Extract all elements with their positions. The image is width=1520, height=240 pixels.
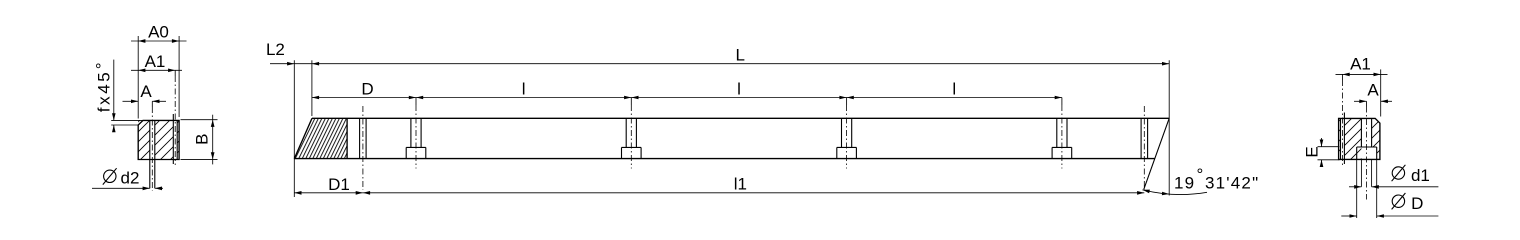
dimension phi-D line bbox=[1341, 215, 1356, 217]
main view: screw hole 4 slot bbox=[1056, 118, 1058, 147]
left end view: hatching bbox=[138, 120, 150, 159]
right end view: cross-hole centerline bbox=[1342, 74, 1344, 80]
dimension phi-d2 line bbox=[92, 187, 150, 189]
dimension phi-D symbol bbox=[1392, 195, 1404, 207]
dimension phi-d2 symbol bbox=[104, 170, 116, 182]
right end view: screw hole centerline bbox=[1366, 101, 1368, 106]
dimension phi-d1 symbol bbox=[1392, 167, 1404, 179]
dimension L2 line bbox=[270, 63, 312, 65]
dimension A1 line (right view) bbox=[1336, 73, 1388, 75]
right end view: screw slot lines bbox=[1360, 118, 1362, 147]
left end view: hole d2 centerline bbox=[151, 101, 153, 107]
right end view: counterbore bbox=[1357, 146, 1377, 148]
svg-text:D: D bbox=[1411, 194, 1423, 213]
dimension phi-D extension lines bbox=[1356, 159, 1358, 218]
svg-text:d2: d2 bbox=[121, 169, 140, 188]
svg-text:A1: A1 bbox=[1350, 55, 1371, 74]
dimension L2/D1 extension line (bottom-left corner) bbox=[293, 60, 295, 197]
main view: left adjusting cross-hole centerline bbox=[362, 106, 364, 190]
main view: screw hole 3 slot bbox=[841, 118, 843, 147]
svg-text:L2: L2 bbox=[266, 40, 285, 59]
dimension chain node arrows at x=847 bbox=[839, 96, 846, 100]
svg-text:°: ° bbox=[1197, 165, 1204, 184]
dimension phi-d1 line bbox=[1349, 186, 1361, 188]
svg-text:l: l bbox=[952, 80, 956, 99]
main view: left taper slant edge bbox=[294, 118, 312, 158]
dimension A0 line bbox=[131, 40, 187, 42]
dimension chain node arrows at x=631 bbox=[624, 96, 631, 100]
main view: screw hole 4 centerline bbox=[1061, 98, 1063, 106]
dimension A line (left view) bbox=[123, 100, 139, 102]
main view: screw hole 1 centerline bbox=[415, 98, 417, 106]
main view: bar bottom edge bbox=[294, 158, 1154, 160]
dimension E line bbox=[1321, 138, 1323, 147]
dimension E extension lines bbox=[1318, 146, 1340, 148]
main view: right adjusting cross-hole centerline bbox=[1143, 106, 1145, 190]
dimension phi-d1 extension lines bbox=[1360, 159, 1362, 186]
main view: taper hatch block bbox=[294, 118, 347, 158]
dimension angle 19 deg 31' 42" arc bbox=[1143, 190, 1208, 195]
main view: screw hole 4 counterbore bbox=[1052, 146, 1072, 148]
dimension B line bbox=[212, 115, 214, 165]
svg-text:l1: l1 bbox=[734, 175, 747, 194]
main view: bar top edge bbox=[312, 117, 1169, 119]
right end view: section outline with chamfer bbox=[1339, 118, 1380, 159]
svg-text:31'42": 31'42" bbox=[1205, 174, 1259, 193]
dimension chain node arrows at x=416 bbox=[409, 96, 416, 100]
dimension A0 right extension line bbox=[178, 36, 180, 117]
main view: screw hole 2 counterbore bbox=[622, 146, 642, 148]
dimension A1 line (left view) bbox=[131, 69, 182, 71]
right end view: hatching bbox=[1339, 118, 1341, 159]
main view: left adjusting cross-hole lines bbox=[359, 118, 361, 158]
left end view: cross-hole centerline bbox=[174, 70, 176, 76]
svg-text:A1: A1 bbox=[145, 52, 166, 71]
svg-text:E: E bbox=[1303, 146, 1322, 157]
svg-text:A0: A0 bbox=[148, 23, 169, 42]
main view: screw hole 1 counterbore bbox=[406, 146, 426, 148]
main view: screw hole 1 slot bbox=[410, 118, 412, 147]
svg-text:D: D bbox=[361, 80, 373, 99]
right end view: cross-hole lines bbox=[1340, 118, 1342, 159]
dimension L left extension line bbox=[311, 60, 313, 116]
left end view: cross-hole lines bbox=[172, 114, 174, 164]
svg-text:d1: d1 bbox=[1411, 166, 1430, 185]
dimension A line (right view) bbox=[1354, 100, 1367, 102]
dimension l1 line bbox=[363, 192, 1144, 194]
left end view: hole d2 lines bbox=[149, 120, 151, 188]
svg-text:l: l bbox=[522, 80, 526, 99]
svg-text:A: A bbox=[1367, 81, 1379, 100]
main view: right end slant edge (taper angle) bbox=[1144, 118, 1169, 189]
dimension B extension lines bbox=[181, 119, 218, 121]
svg-text:L: L bbox=[735, 46, 744, 65]
dimension L line bbox=[312, 63, 1169, 65]
main view: screw hole 2 centerline bbox=[630, 98, 632, 106]
svg-text:19: 19 bbox=[1174, 174, 1195, 193]
dimension D1 line bbox=[294, 192, 363, 194]
dimension A0/A1/A left extension line bbox=[137, 36, 139, 119]
main view: screw hole 3 counterbore bbox=[837, 146, 857, 148]
svg-text:D1: D1 bbox=[328, 175, 350, 194]
main view: screw hole 3 centerline bbox=[846, 98, 848, 106]
dimension chain D-l-l-l line bbox=[312, 97, 1062, 99]
main view: right adjusting cross-hole lines bbox=[1140, 118, 1142, 158]
svg-text:B: B bbox=[193, 134, 212, 145]
dimension A1/A right extension line bbox=[1380, 69, 1382, 116]
left end view: section outline with chamfer bbox=[138, 120, 179, 159]
svg-text:A: A bbox=[140, 82, 152, 101]
dimension fx45 leader bbox=[113, 60, 115, 121]
main view: screw hole 2 slot bbox=[625, 118, 627, 147]
svg-text:l: l bbox=[737, 80, 741, 99]
dimension chain end arrows bbox=[312, 96, 319, 100]
main view: right vertical reference / L extension line bbox=[1168, 60, 1170, 195]
svg-text:fx45°: fx45° bbox=[93, 60, 114, 112]
